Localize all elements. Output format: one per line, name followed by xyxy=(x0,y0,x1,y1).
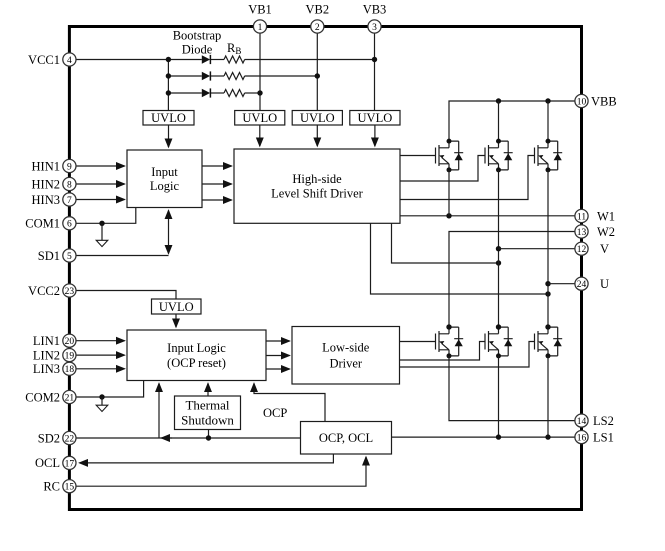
arrow UVLO4 to High-side driver xyxy=(374,125,376,146)
svg-text:7: 7 xyxy=(67,196,72,206)
wire row3 from VCC1 bus to diode D3 xyxy=(168,92,201,94)
wire row1 diode D1 to resistor RB1 xyxy=(211,59,225,61)
wire Thermal Shutdown to SD2 line xyxy=(208,430,210,439)
wire LIN2 into Input Logic (OCP reset) xyxy=(69,354,124,356)
arrow UVLO1 to Input Logic xyxy=(168,125,170,147)
svg-text:SD2: SD2 xyxy=(38,431,60,445)
svg-text:VB3: VB3 xyxy=(363,3,387,17)
junction Q5 drain xyxy=(496,324,501,329)
pin 20 (LIN1) xyxy=(63,334,76,347)
resistor RB2 xyxy=(224,73,245,80)
wire OCP from OCP OCL block to Input Logic xyxy=(254,384,325,422)
wire Q2 drain xyxy=(498,101,500,141)
ground symbol COM2 xyxy=(96,405,108,411)
svg-text:LS1: LS1 xyxy=(593,430,614,444)
junction VBB rail / Q2 drain xyxy=(496,98,501,103)
wire row2 resistor RB2 to VB2 node xyxy=(245,75,318,77)
OCP OCL block U6 xyxy=(301,422,392,455)
svg-text:W2: W2 xyxy=(597,225,615,239)
svg-text:LIN2: LIN2 xyxy=(33,348,60,362)
svg-text:15: 15 xyxy=(65,483,75,493)
wire Q3 source down to low side xyxy=(547,170,549,327)
svg-text:3: 3 xyxy=(372,23,377,33)
junction node VB1 / row3 xyxy=(257,90,262,95)
arrow UVLO3 to High-side driver xyxy=(316,125,318,146)
pin 8 (HIN2) xyxy=(63,177,76,190)
bootstrap diode D3 xyxy=(202,88,211,97)
wire Q2 source down to low side xyxy=(498,170,500,327)
wire High-side driver to Q2 gate xyxy=(400,156,485,182)
junction Q6 drain xyxy=(545,324,550,329)
UVLO block for VB3 (UVLO4) xyxy=(350,111,400,126)
wire VCC1 vertical bus to UVLO1 xyxy=(167,60,169,111)
svg-text:HIN2: HIN2 xyxy=(32,177,60,191)
wire LS1 line from OCP OCL block to pin 16 xyxy=(392,436,576,438)
svg-text:VBB: VBB xyxy=(591,94,617,108)
junction node VB3 / row1 xyxy=(372,57,377,62)
junction Q6 source / LS1 xyxy=(545,434,550,439)
svg-text:18: 18 xyxy=(65,365,75,375)
pin 7 (HIN3) xyxy=(63,193,76,206)
wire row3 resistor RB3 to VB1 node xyxy=(245,92,260,94)
wire VB2 vertical from pin 2 to UVLO3 xyxy=(316,27,318,111)
svg-text:10: 10 xyxy=(577,97,587,107)
pin 16 (LS1) xyxy=(575,431,588,444)
pin 2 (VB2) xyxy=(311,20,324,33)
svg-text:16: 16 xyxy=(577,434,587,444)
wire COM1 ground stem xyxy=(101,223,103,240)
wire W2 line from pin 13 down to Q4 drain xyxy=(449,232,575,328)
pin 23 (VCC2) xyxy=(63,284,76,297)
pin 22 (SD2) xyxy=(63,431,76,444)
resistor RB1 xyxy=(224,56,245,63)
pin 14 (LS2) xyxy=(575,414,588,427)
svg-text:1: 1 xyxy=(258,23,263,33)
UVLO block for VCC1 (UVLO1) xyxy=(143,111,194,126)
junction node VB2 / row2 xyxy=(315,73,320,78)
pin 13 (W2) xyxy=(575,225,588,238)
pin 10 (VBB) xyxy=(575,94,588,107)
svg-text:VCC2: VCC2 xyxy=(28,284,60,298)
UVLO block for VB1 (UVLO2) xyxy=(235,111,285,126)
wire LIN1 into Input Logic (OCP reset) xyxy=(69,340,124,342)
svg-text:W1: W1 xyxy=(597,209,615,223)
UVLO block for VCC2 (UVLO5) xyxy=(152,299,202,314)
high-side MOSFET Q2 (V-phase) xyxy=(485,139,513,173)
wire RC from pin 15 to OCP OCL block xyxy=(69,457,366,486)
wire pin U line xyxy=(548,283,575,285)
junction Thermal Shutdown / SD2 line xyxy=(206,435,211,440)
pin 4 (VCC1) xyxy=(63,53,76,66)
junction Q5 source / LS1 xyxy=(496,434,501,439)
svg-text:19: 19 xyxy=(65,352,75,362)
svg-text:Bootstrap: Bootstrap xyxy=(173,29,222,43)
Input Logic (OCP reset) block U3 xyxy=(127,330,266,381)
svg-text:LIN3: LIN3 xyxy=(33,362,60,376)
bootstrap diode D2 xyxy=(202,71,211,80)
svg-text:6: 6 xyxy=(67,220,72,230)
wire VB3 vertical from pin 3 to UVLO4 xyxy=(374,27,376,111)
svg-text:UVLO: UVLO xyxy=(159,300,194,314)
svg-text:VCC1: VCC1 xyxy=(28,53,60,67)
Thermal Shutdown block U5 xyxy=(175,396,241,430)
wire Q5 source to LS1 line xyxy=(498,356,500,437)
svg-text:(OCP reset): (OCP reset) xyxy=(167,356,226,370)
wire Low-side Driver to Q5 gate xyxy=(400,342,486,361)
svg-text:V: V xyxy=(600,242,609,256)
arrow Input Logic to Low-side Driver 3 xyxy=(266,368,290,370)
wire row2 from VCC1 bus to diode D2 xyxy=(168,75,201,77)
svg-text:8: 8 xyxy=(67,180,72,190)
wire SD1 from pin 5 xyxy=(69,255,168,257)
pin 1 (VB1) xyxy=(253,20,266,33)
wire VCC1 row1 from pin 4 to bootstrap diode D1 xyxy=(69,59,201,61)
svg-text:17: 17 xyxy=(65,459,75,469)
junction VCC1 bus row3 xyxy=(166,90,171,95)
svg-text:SD1: SD1 xyxy=(38,249,60,263)
pin 11 (W1) xyxy=(575,209,588,222)
arrow UVLO2 to High-side driver xyxy=(259,125,261,146)
svg-text:Diode: Diode xyxy=(182,43,213,57)
wire W1 line from High-side driver to pin 11 xyxy=(400,215,575,217)
arrow Input Logic to High-side driver 1 xyxy=(202,165,232,167)
junction COM1 ground tap xyxy=(99,221,104,226)
arrow Input Logic to Low-side Driver 2 xyxy=(266,355,290,357)
svg-text:U: U xyxy=(600,277,609,291)
pin 21 (COM2) xyxy=(63,390,76,403)
svg-text:OCP, OCL: OCP, OCL xyxy=(319,431,373,445)
wire VCC2 to UVLO5 xyxy=(69,291,176,300)
svg-text:COM2: COM2 xyxy=(25,390,60,404)
arrow Input Logic to High-side driver 2 xyxy=(202,183,232,185)
svg-text:Low-side: Low-side xyxy=(322,341,370,355)
wire HIN3 into Input Logic xyxy=(69,199,124,201)
pin 9 (HIN1) xyxy=(63,159,76,172)
wire High-side driver to Q3 gate xyxy=(400,156,535,200)
wire COM1 to Input Logic bottom xyxy=(69,208,135,223)
svg-text:22: 22 xyxy=(65,434,75,444)
svg-text:5: 5 xyxy=(67,252,72,262)
junction U return / Q3 source xyxy=(545,291,550,296)
high-side MOSFET Q1 (W-phase) xyxy=(436,139,464,173)
svg-text:Logic: Logic xyxy=(150,179,180,193)
wire pin V line xyxy=(499,248,576,250)
wire VBB rail to Q1 drain xyxy=(449,101,575,141)
svg-text:Thermal: Thermal xyxy=(185,398,229,413)
arrow SD2 node up into Input Logic xyxy=(158,384,160,439)
wire Q1 source to W1 line xyxy=(448,170,450,216)
bidirectional arrow SD1 to Input Logic xyxy=(168,211,170,254)
pin 19 (LIN2) xyxy=(63,349,76,362)
svg-text:20: 20 xyxy=(65,337,75,347)
wire COM2 to Input Logic bottom xyxy=(69,381,143,398)
low-side MOSFET Q6 (U-phase) xyxy=(535,325,563,359)
high-side MOSFET Q3 (U-phase) xyxy=(535,139,563,173)
wire Low-side Driver to Q4 gate xyxy=(400,341,436,343)
arrow Input Logic to Low-side Driver 1 xyxy=(266,340,290,342)
arrow Input Logic to High-side driver 3 xyxy=(202,199,232,201)
junction V return / Q2 source xyxy=(496,260,501,265)
svg-text:LS2: LS2 xyxy=(593,414,614,428)
svg-text:OCP: OCP xyxy=(263,406,287,420)
pin 24 (U) xyxy=(575,277,588,290)
wire row1 resistor RB1 to VB3 node xyxy=(245,59,375,61)
svg-text:Driver: Driver xyxy=(329,357,362,371)
junction COM2 ground tap xyxy=(99,394,104,399)
svg-text:UVLO: UVLO xyxy=(358,111,393,125)
Low-side Driver block U4 xyxy=(292,327,400,385)
wire row2 diode D2 to resistor RB2 xyxy=(211,75,225,77)
svg-text:UVLO: UVLO xyxy=(242,111,277,125)
svg-text:UVLO: UVLO xyxy=(151,111,186,125)
wire U-phase source return xyxy=(371,223,546,294)
pin 3 (VB3) xyxy=(368,20,381,33)
wire Low-side Driver to Q6 gate xyxy=(400,342,535,368)
wire OCL from OCP OCL block to pin 17 xyxy=(80,454,334,463)
Input Logic block U1 xyxy=(127,150,202,208)
wire row3 diode D3 to resistor RB3 xyxy=(211,92,225,94)
junction VCC1 bus row2 xyxy=(166,73,171,78)
junction VBB rail / Q3 drain xyxy=(545,98,550,103)
svg-text:UVLO: UVLO xyxy=(300,111,335,125)
svg-text:OCL: OCL xyxy=(35,456,60,470)
svg-text:VB2: VB2 xyxy=(305,3,329,17)
arrow UVLO5 to Input Logic (OCP reset) xyxy=(175,314,177,327)
svg-text:High-side: High-side xyxy=(292,172,342,186)
wire COM2 ground stem xyxy=(101,397,103,405)
svg-text:LIN1: LIN1 xyxy=(33,334,60,348)
wire Q6 source to LS1 line xyxy=(547,356,549,437)
svg-text:13: 13 xyxy=(577,228,587,238)
svg-text:23: 23 xyxy=(65,287,75,297)
pin 12 (V) xyxy=(575,242,588,255)
pin 15 (RC) xyxy=(63,480,76,493)
svg-text:9: 9 xyxy=(67,162,72,172)
svg-text:HIN3: HIN3 xyxy=(32,193,60,207)
pin 17 (OCL) xyxy=(63,456,76,469)
junction Q3 source / pin U line xyxy=(545,281,550,286)
High-side Level Shift Driver block U2 xyxy=(234,149,400,223)
wire HIN2 into Input Logic xyxy=(69,183,124,185)
arrowhead on SD2 line pointing left xyxy=(161,437,172,439)
svg-text:11: 11 xyxy=(577,212,586,222)
svg-text:21: 21 xyxy=(65,393,75,403)
svg-text:24: 24 xyxy=(577,280,587,290)
low-side MOSFET Q4 (W-phase) xyxy=(436,325,464,359)
UVLO block for VB2 (UVLO3) xyxy=(292,111,342,126)
low-side MOSFET Q5 (V-phase) xyxy=(485,325,513,359)
svg-text:HIN1: HIN1 xyxy=(32,159,60,173)
svg-text:Shutdown: Shutdown xyxy=(181,413,234,428)
wire V-phase source return xyxy=(392,223,497,263)
svg-text:Input Logic: Input Logic xyxy=(167,341,226,355)
svg-text:14: 14 xyxy=(577,417,587,427)
svg-text:Input: Input xyxy=(151,165,178,179)
junction VCC1 bus row1 xyxy=(166,57,171,62)
wire High-side driver to Q1 gate xyxy=(400,155,436,157)
svg-text:4: 4 xyxy=(67,56,72,66)
wire LIN3 into Input Logic (OCP reset) xyxy=(69,368,124,370)
svg-text:2: 2 xyxy=(315,23,320,33)
ground symbol COM1 xyxy=(96,240,108,246)
svg-text:Level Shift Driver: Level Shift Driver xyxy=(271,187,363,201)
svg-text:RC: RC xyxy=(43,480,60,494)
pin 18 (LIN3) xyxy=(63,362,76,375)
bootstrap diode D1 xyxy=(202,55,211,64)
wire HIN1 into Input Logic xyxy=(69,165,124,167)
arrow Thermal Shutdown to Input Logic xyxy=(207,384,209,397)
pin 6 (COM1) xyxy=(63,217,76,230)
junction Q2 source / pin V line xyxy=(496,246,501,251)
svg-text:COM1: COM1 xyxy=(25,217,60,231)
wire VB1 vertical from pin 1 to UVLO2 xyxy=(259,27,261,111)
junction Q4 drain / W2 line xyxy=(446,324,451,329)
wire Q3 drain xyxy=(547,101,549,141)
IC package outline frame xyxy=(69,27,581,510)
svg-text:VB1: VB1 xyxy=(248,3,272,17)
svg-text:12: 12 xyxy=(577,245,587,255)
wire SD2 line pin 22 to OCP OCL block xyxy=(69,437,300,439)
pin 5 (SD1) xyxy=(63,249,76,262)
resistor RB3 xyxy=(224,90,245,97)
junction Q1 source / W1 xyxy=(446,213,451,218)
wire LS2 from Q4 source to pin 14 xyxy=(449,356,575,421)
